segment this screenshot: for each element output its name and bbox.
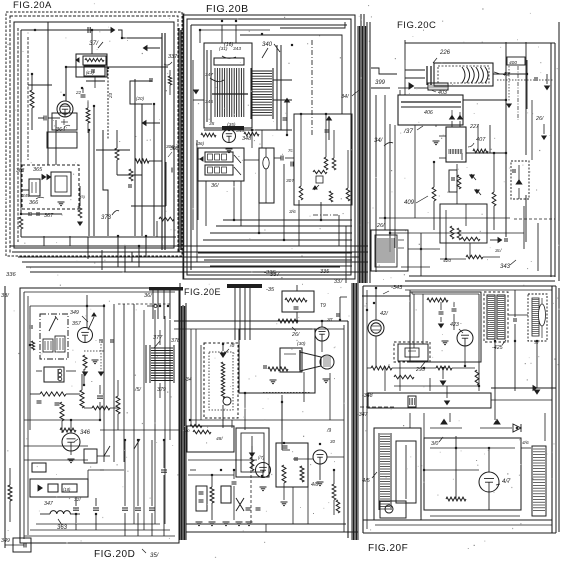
svg-text:423: 423 <box>450 322 459 328</box>
svg-text:/37: /37 <box>403 128 413 135</box>
svg-text:FIG.20A: FIG.20A <box>13 0 52 11</box>
svg-text:37/: 37/ <box>89 40 99 47</box>
svg-text:34/: 34/ <box>341 94 349 100</box>
svg-text:3/6: 3/6 <box>289 209 296 215</box>
svg-text:26/: 26/ <box>291 332 300 338</box>
svg-text:343: 343 <box>233 46 241 52</box>
svg-text:378: 378 <box>171 338 180 344</box>
svg-text:23: 23 <box>108 92 113 99</box>
svg-text:40/: 40/ <box>503 72 511 78</box>
svg-text:-337: -337 <box>268 272 280 278</box>
svg-text:(5): (5) <box>80 194 86 199</box>
svg-text:/9: /9 <box>326 428 331 434</box>
svg-text:26/: 26/ <box>376 223 385 229</box>
svg-text:(20): (20) <box>136 96 145 101</box>
svg-text:4/7: 4/7 <box>502 479 511 485</box>
svg-text:307: 307 <box>286 178 294 184</box>
svg-text:36/: 36/ <box>211 183 219 189</box>
svg-text:30': 30' <box>327 317 333 322</box>
svg-text:7c: 7c <box>288 148 294 153</box>
svg-text:-347: -347 <box>357 412 369 418</box>
svg-text:343: 343 <box>500 264 511 270</box>
svg-text:409: 409 <box>404 200 415 206</box>
svg-text:26/: 26/ <box>535 116 544 122</box>
svg-text:32/: 32/ <box>74 497 81 503</box>
svg-text:306: 306 <box>166 144 174 150</box>
svg-text:399: 399 <box>375 80 386 86</box>
svg-text:(16): (16) <box>224 42 233 48</box>
svg-text:363: 363 <box>16 168 25 174</box>
svg-text:373: 373 <box>101 215 112 221</box>
svg-text:346: 346 <box>80 430 91 436</box>
svg-text:35: 35 <box>209 121 215 127</box>
svg-text:349: 349 <box>1 538 10 544</box>
svg-text:22: 22 <box>75 90 82 95</box>
svg-text:345: 345 <box>22 193 30 198</box>
svg-text:3/0: 3/0 <box>431 441 438 447</box>
svg-text:34/: 34/ <box>374 138 384 144</box>
svg-text:FIG.20F: FIG.20F <box>368 543 408 554</box>
svg-text:366: 366 <box>29 200 39 206</box>
svg-text:/5/: /5/ <box>134 387 141 393</box>
svg-text:FIG.20B: FIG.20B <box>206 3 249 15</box>
svg-text:407: 407 <box>476 137 486 143</box>
svg-text:T9: T9 <box>320 303 326 309</box>
svg-text:FIG.20D: FIG.20D <box>94 549 135 560</box>
svg-text:(18): (18) <box>63 487 71 492</box>
svg-text:4/6: 4/6 <box>522 440 529 446</box>
svg-text:377: 377 <box>153 335 163 341</box>
svg-text:FIG.20E: FIG.20E <box>184 287 221 297</box>
svg-text:48/: 48/ <box>216 436 223 442</box>
svg-text:348: 348 <box>242 136 252 142</box>
svg-text:(36): (36) <box>196 141 205 146</box>
svg-text:-348: -348 <box>362 393 373 399</box>
svg-text:379: 379 <box>157 387 166 393</box>
svg-text:337: 337 <box>334 279 344 285</box>
svg-text:347: 347 <box>44 501 54 507</box>
svg-text:226: 226 <box>439 50 451 56</box>
svg-text:365: 365 <box>33 167 43 173</box>
svg-text:4/8: 4/8 <box>311 482 318 488</box>
svg-text:(30): (30) <box>297 341 306 347</box>
svg-text:FIG.20C: FIG.20C <box>397 20 436 31</box>
svg-text:420: 420 <box>443 258 451 264</box>
svg-text:(/7): (/7) <box>258 455 265 460</box>
svg-text:347: 347 <box>205 72 213 78</box>
svg-text:337: 337 <box>168 54 178 60</box>
svg-text:336: 336 <box>6 272 16 278</box>
svg-text:406: 406 <box>424 110 433 116</box>
svg-text:345: 345 <box>205 99 213 105</box>
svg-text:400: 400 <box>509 60 517 66</box>
svg-text:3c/: 3c/ <box>495 248 502 254</box>
svg-text:349: 349 <box>70 310 79 316</box>
svg-text:340: 340 <box>262 42 273 48</box>
svg-text:-35: -35 <box>266 287 275 293</box>
svg-text:35/: 35/ <box>150 553 160 559</box>
svg-text:30: 30 <box>330 439 336 444</box>
svg-text:-425: -425 <box>492 345 503 351</box>
svg-text:4/5: 4/5 <box>362 478 371 484</box>
svg-text:/8: /8 <box>229 343 234 349</box>
svg-text:357: 357 <box>72 321 82 327</box>
